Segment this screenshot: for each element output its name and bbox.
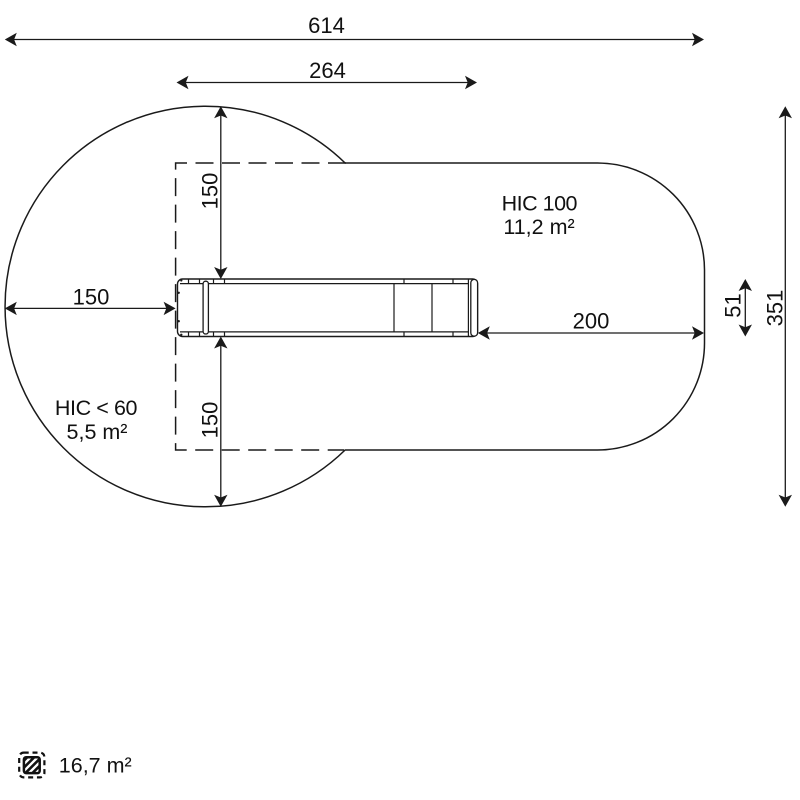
- safety zone outline (circle + rounded rectangle union): [5, 106, 704, 507]
- svg-text:HIC 100: HIC 100: [502, 192, 578, 216]
- dimension 264: [177, 58, 478, 89]
- dimension 150 left horizontal: [5, 284, 176, 315]
- svg-text:11,2 m²: 11,2 m²: [503, 215, 574, 239]
- svg-text:200: 200: [573, 309, 610, 334]
- svg-text:16,7 m²: 16,7 m²: [59, 753, 132, 777]
- dimension 614: [5, 13, 704, 46]
- right end cap plank: [471, 279, 478, 336]
- svg-text:HIC < 60: HIC < 60: [55, 396, 138, 420]
- svg-text:51: 51: [720, 293, 745, 317]
- area icon hatched inner square: [9, 754, 59, 776]
- svg-text:150: 150: [198, 173, 223, 210]
- svg-text:264: 264: [309, 58, 346, 83]
- dimension 51: [720, 279, 752, 337]
- rail plank ticks bottom: [189, 332, 454, 337]
- svg-text:614: 614: [308, 13, 345, 38]
- svg-text:5,5 m²: 5,5 m²: [67, 420, 128, 444]
- equipment mid dividers: [393, 284, 395, 332]
- equipment top inner rail: [180, 283, 468, 285]
- area icon dashed outer square: [19, 753, 44, 778]
- svg-text:150: 150: [198, 402, 223, 439]
- left crossbar plank: [203, 281, 208, 334]
- dimension 351: [762, 106, 792, 507]
- rail plank ticks top: [189, 279, 454, 284]
- minimum space dashed rectangle: [176, 163, 346, 450]
- equipment body outline: [178, 279, 478, 337]
- equipment bottom inner rail: [180, 331, 468, 333]
- right end cap line: [467, 280, 469, 337]
- svg-text:150: 150: [73, 284, 110, 309]
- dimension 150 top vertical: [198, 106, 228, 279]
- corner screw dots: [178, 279, 183, 336]
- svg-text:351: 351: [762, 290, 787, 327]
- dimension 150 bottom vertical: [198, 337, 228, 507]
- dimension 200: [478, 309, 704, 340]
